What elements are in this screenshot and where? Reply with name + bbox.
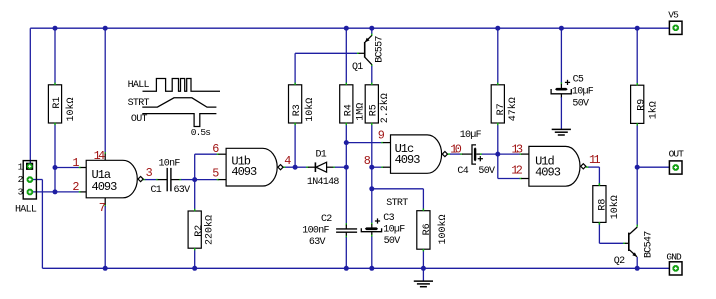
wire R8 to Q2 base: [599, 222, 628, 243]
wire D1 anode to node: [327, 166, 347, 168]
capacitor C1: [151, 159, 191, 197]
svg-text:0.5s: 0.5s: [191, 127, 210, 138]
pin number 12 of U1d: [511, 163, 522, 177]
wire R1 bottom to node: [54, 124, 56, 192]
wire R7 bottom to node: [497, 124, 499, 154]
op-amp U1a NAND gate: [86, 160, 143, 198]
svg-text:GND: GND: [666, 252, 682, 263]
connector HALL: [15, 161, 37, 216]
wire C3 to GND rail: [371, 232, 373, 268]
node C4 to R7 and U1d inputs: [495, 152, 500, 157]
wire R9 top: [636, 28, 638, 84]
wire GND rail to ground symbol: [422, 268, 424, 281]
wire U1a pin14: [104, 28, 106, 160]
wire Q1 collector to R5: [371, 64, 373, 84]
wire U1a output to C1: [143, 179, 167, 181]
wire Q1 emitter to V5 rail: [371, 28, 373, 36]
node C1 to U1b inputs and R2: [192, 177, 197, 182]
wire node to U1c pin9: [346, 142, 390, 144]
svg-text:R5: R5: [369, 104, 380, 116]
wire HALL pin2 to GND rail: [33, 180, 42, 269]
svg-text:HALL: HALL: [15, 204, 37, 215]
svg-text:BC557: BC557: [374, 36, 385, 63]
wire R3 top to Q1 base: [295, 53, 364, 84]
node R1 top at V5 rail: [53, 26, 58, 31]
pin number 9 of U1c: [378, 128, 385, 142]
wire C4 to node: [476, 153, 498, 155]
wire node to D1 cathode: [295, 166, 315, 168]
connector OUT: [669, 148, 685, 174]
svg-text:2.2kΩ: 2.2kΩ: [379, 93, 391, 123]
wire bottom GND rail: [42, 267, 669, 269]
wire C2 to GND rail: [345, 232, 347, 268]
wire R4 top: [345, 28, 347, 84]
capacitor C5: [551, 75, 594, 110]
pin number 13 of U1d: [512, 143, 523, 157]
timing diagram OUT waveform: [131, 114, 217, 139]
wire node to U1c pin8: [372, 166, 391, 168]
wire C5 top to V5 rail: [560, 28, 562, 88]
pin number 1 of U1a: [72, 156, 79, 170]
node R9 top at V5 rail: [635, 26, 640, 31]
svg-text:R4: R4: [343, 104, 354, 116]
svg-text:V5: V5: [668, 10, 679, 21]
resistor R1: [48, 83, 76, 126]
node STRT net to R6: [369, 186, 374, 191]
svg-text:50V: 50V: [384, 236, 401, 247]
resistor R4: [340, 83, 367, 126]
svg-text:63V: 63V: [174, 185, 191, 196]
node R4 top at V5 rail: [344, 26, 349, 31]
wire R2 to GND rail: [194, 249, 196, 269]
wire Q2 emitter to GND rail: [636, 257, 638, 268]
resistor R2: [188, 209, 215, 251]
timing diagram HALL waveform: [128, 79, 220, 92]
pin number 8 of U1c: [364, 154, 371, 168]
capacitor C2: [302, 214, 357, 248]
svg-text:C3: C3: [383, 213, 394, 224]
svg-text:1kΩ: 1kΩ: [647, 101, 659, 119]
wire C5 bottom to ground: [560, 94, 562, 130]
transistor Q1: [352, 35, 385, 73]
svg-text:4093: 4093: [231, 165, 257, 179]
node Q1 emitter at V5 rail: [369, 26, 374, 31]
svg-text:10nF: 10nF: [159, 159, 181, 170]
pin number 11 of U1d: [589, 153, 600, 167]
wire U1b output to node: [283, 166, 295, 168]
node R5 to U1c pin8: [369, 165, 374, 170]
connector GND: [666, 252, 682, 275]
node R6 and ground at GND rail: [421, 266, 426, 271]
node HALL pin3 to U1a pin2: [53, 189, 58, 194]
svg-text:R6: R6: [422, 223, 433, 235]
wire HALL pin3 to U1a inputs: [33, 191, 86, 193]
svg-text:4093: 4093: [535, 166, 561, 180]
op-amp U1c NAND gate: [391, 135, 448, 173]
svg-text:R8: R8: [597, 199, 608, 211]
op-amp U1b NAND gate: [226, 148, 283, 186]
svg-text:4093: 4093: [395, 153, 421, 167]
ground at GND rail: [414, 281, 433, 287]
svg-text:R7: R7: [496, 103, 507, 115]
resistor R6: [417, 209, 449, 252]
pin number 5 of U1b: [212, 167, 219, 181]
node C3 at GND rail: [369, 266, 374, 271]
wire R9 bottom to OUT node and Q2 collector: [636, 124, 638, 227]
capacitor C3: [361, 213, 405, 247]
svg-text:Q2: Q2: [614, 256, 625, 267]
node R2 at GND rail: [192, 266, 197, 271]
svg-text:100kΩ: 100kΩ: [437, 214, 449, 244]
node STRT label: [386, 198, 408, 209]
wire node up to R3: [294, 124, 296, 167]
node R9 to OUT and Q2 collector: [635, 165, 640, 170]
ground under C5: [552, 129, 571, 135]
svg-text:C1: C1: [151, 185, 162, 196]
diode D1: [307, 149, 340, 188]
node D1 to C2: [344, 165, 349, 170]
capacitor C4: [457, 130, 495, 177]
wire C1 to node: [171, 179, 194, 181]
svg-text:Q1: Q1: [352, 62, 363, 73]
wire R6 to GND rail: [422, 250, 424, 269]
svg-text:47kΩ: 47kΩ: [507, 97, 519, 121]
pin number 10 of U1c: [450, 142, 461, 156]
transistor Q2: [614, 227, 655, 267]
resistor R7: [491, 83, 519, 126]
wire left riser HALL pin1 to V5 rail: [29, 28, 31, 167]
node Q2 emitter at GND rail: [635, 266, 640, 271]
svg-text:R1: R1: [52, 97, 63, 109]
svg-text:50V: 50V: [572, 98, 589, 109]
node U1b output to R3 and D1: [293, 165, 298, 170]
node R4 to U1c pin9: [344, 140, 349, 145]
svg-text:10µF: 10µF: [572, 87, 594, 98]
resistor R5: [365, 83, 391, 126]
node U1a pin14 at V5 rail: [103, 26, 108, 31]
svg-text:50V: 50V: [478, 166, 495, 177]
svg-text:R2: R2: [194, 225, 205, 237]
resistor R9: [631, 83, 660, 126]
wire node to U1d pin12: [498, 154, 529, 178]
wire STRT node to R6: [372, 189, 424, 210]
timing diagram STRT waveform: [128, 98, 217, 109]
svg-text:220kΩ: 220kΩ: [203, 215, 215, 245]
svg-text:BC547: BC547: [644, 231, 655, 258]
svg-text:OUT: OUT: [669, 148, 685, 159]
svg-text:OUT: OUT: [131, 114, 148, 125]
svg-text:R3: R3: [292, 104, 303, 116]
svg-text:10µF: 10µF: [460, 130, 482, 141]
svg-text:10kΩ: 10kΩ: [65, 97, 77, 121]
node U1a pin7 at GND rail: [103, 266, 108, 271]
pin number 14 of U1a: [94, 149, 105, 163]
svg-text:100nF: 100nF: [302, 226, 329, 237]
svg-text:1N4148: 1N4148: [307, 177, 340, 188]
svg-text:C2: C2: [321, 214, 332, 225]
wire U1a pin7: [104, 198, 106, 268]
wire node to U1a pin1: [55, 167, 86, 169]
pin number 7 of U1a: [99, 201, 106, 215]
wire R5 bottom through nodes to C3: [371, 124, 373, 228]
node R7 top at V5 rail: [495, 26, 500, 31]
svg-text:C4: C4: [457, 166, 468, 177]
svg-text:R9: R9: [636, 99, 647, 111]
wire U1c output to C4: [448, 153, 473, 155]
node C2 at GND rail: [344, 266, 349, 271]
wire R4 bottom through nodes to C2: [345, 124, 347, 229]
svg-text:HALL: HALL: [128, 80, 150, 91]
svg-text:10kΩ: 10kΩ: [609, 195, 621, 219]
svg-text:4093: 4093: [92, 180, 118, 194]
wire node to R2: [194, 180, 196, 211]
svg-text:STRT: STRT: [386, 198, 408, 209]
wire top V5 rail: [30, 27, 669, 29]
wire U1d output to R8: [586, 167, 600, 186]
pin number 3 of U1a: [146, 166, 153, 180]
resistor R3: [289, 83, 316, 126]
op-amp U1d NAND gate: [529, 146, 586, 186]
svg-text:10µF: 10µF: [383, 225, 405, 236]
connector V5: [668, 10, 682, 35]
wire node to U1b pin6: [195, 154, 226, 179]
svg-text:63V: 63V: [309, 237, 326, 248]
pin number 4 of U1b: [284, 154, 291, 168]
wire R1 top: [54, 28, 56, 84]
wire node to U1b pin5: [195, 179, 226, 181]
svg-text:C5: C5: [573, 75, 584, 86]
wire OUT node to OUT connector: [637, 166, 669, 168]
svg-text:D1: D1: [316, 149, 327, 160]
resistor R8: [593, 183, 621, 224]
pin number 6 of U1b: [212, 142, 219, 156]
wire node to U1d pin13: [498, 153, 529, 155]
svg-text:10kΩ: 10kΩ: [304, 98, 316, 122]
node R1 bottom to U1a pin1: [53, 165, 58, 170]
wire R7 top: [497, 28, 499, 84]
node C5 top at V5 rail: [559, 26, 564, 31]
pin number 2 of U1a: [72, 180, 79, 194]
